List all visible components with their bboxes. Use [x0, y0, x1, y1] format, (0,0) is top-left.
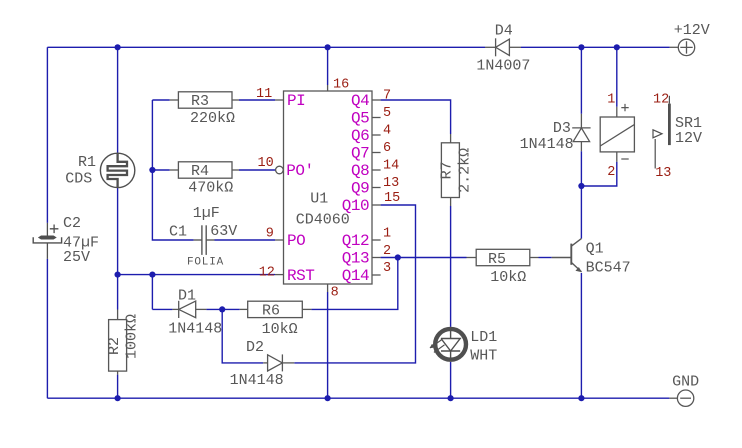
svg-text:Q1: Q1: [586, 240, 604, 257]
pin stub Q10: [372, 204, 381, 206]
pin stub Q4: [372, 99, 381, 101]
pin bubble PO' 10: [276, 166, 284, 174]
svg-text:LD1: LD1: [470, 329, 497, 346]
junction RST row R1 column: [115, 272, 121, 278]
svg-text:11: 11: [256, 87, 272, 102]
wire bottom rail: [47, 397, 669, 399]
junction Q13 row R6: [395, 254, 401, 260]
resistor R6: [240, 301, 312, 317]
junction R4 node: [149, 167, 155, 173]
svg-text:Q10: Q10: [342, 197, 369, 215]
junction bottom rail LED: [448, 395, 454, 401]
svg-text:13: 13: [383, 176, 399, 191]
svg-text:Q4: Q4: [351, 92, 369, 110]
svg-text:2.2kΩ: 2.2kΩ: [456, 148, 473, 193]
wire R7 bottom through LED top: [450, 206, 452, 327]
wire D3 bottom to junction: [580, 151, 582, 186]
svg-text:C2: C2: [63, 215, 81, 232]
wire RST row: [118, 274, 275, 276]
junction bottom rail Q1 emitter: [578, 395, 584, 401]
wire left rail lower (C2 to bottom): [46, 259, 48, 398]
svg-text:10kΩ: 10kΩ: [262, 321, 298, 338]
wire R3 right to PI: [239, 99, 275, 101]
wire Q1 emitter to rail: [580, 273, 582, 398]
pin stub Q6: [372, 134, 381, 136]
wire RST junction to R2 top: [117, 275, 119, 310]
wire D2 drop from junction: [222, 309, 263, 363]
svg-text:470kΩ: 470kΩ: [188, 180, 233, 197]
svg-text:D4: D4: [495, 22, 513, 39]
svg-text:5: 5: [383, 106, 391, 121]
svg-text:Q6: Q6: [351, 127, 369, 145]
wire top rail right of D4: [521, 46, 670, 48]
svg-text:Q5: Q5: [351, 110, 369, 128]
wire R5 right to Q1 base: [539, 257, 552, 259]
wire R4 left: [152, 169, 169, 171]
wire R4 right to PO' bubble: [239, 169, 276, 171]
svg-text:R2: R2: [106, 337, 123, 355]
svg-text:Q8: Q8: [351, 162, 369, 180]
svg-text:4: 4: [383, 124, 391, 139]
wire relay pin1: [616, 47, 618, 107]
terminal +12V: [670, 39, 695, 55]
svg-text:6: 6: [383, 141, 391, 156]
transistor Q1: [552, 239, 582, 272]
svg-text:Q13: Q13: [342, 250, 369, 268]
svg-text:9: 9: [266, 227, 274, 242]
pin stub RST 12: [275, 274, 284, 276]
svg-text:1: 1: [383, 227, 391, 242]
pin stub PO 9: [275, 239, 284, 241]
resistor R4: [170, 162, 239, 178]
diode D3: [572, 114, 590, 151]
svg-text:D1: D1: [178, 288, 196, 305]
svg-text:PO: PO: [287, 232, 305, 250]
wire R6 right up to Q13 row: [311, 258, 397, 310]
svg-text:RST: RST: [287, 267, 314, 285]
wire junction to R6 left: [222, 308, 240, 310]
wire D2 right up to Q10 row: [294, 205, 415, 363]
junction top rail relay: [614, 44, 620, 50]
terminal GND: [669, 390, 693, 406]
LED LD1: [430, 328, 466, 361]
svg-text:2: 2: [383, 244, 391, 259]
svg-text:14: 14: [383, 159, 399, 174]
svg-text:12: 12: [259, 265, 275, 280]
svg-text:Q9: Q9: [351, 180, 369, 198]
op IC U1 box: [284, 91, 373, 284]
pin stub 8: [327, 284, 329, 292]
relay SR1 switch contact: [653, 96, 669, 169]
pin stub Q9: [372, 187, 381, 189]
svg-text:WHT: WHT: [470, 347, 497, 364]
wire D3 top: [580, 47, 582, 114]
svg-text:GND: GND: [672, 373, 699, 390]
wire C1 right to PO pin: [215, 239, 276, 241]
resistor R7: [441, 134, 459, 206]
svg-text:25V: 25V: [63, 249, 90, 266]
wire Q13 pin2 row to R5: [381, 257, 467, 259]
junction top rail R1: [115, 44, 121, 50]
svg-text:Q12: Q12: [342, 232, 369, 250]
pin stub Q13: [372, 257, 381, 259]
svg-text:15: 15: [384, 191, 400, 206]
svg-text:D2: D2: [246, 339, 264, 356]
svg-text:13: 13: [655, 166, 671, 181]
pin stub PI 11: [275, 99, 284, 101]
resistor R2: [109, 310, 127, 375]
wire RST junction down to D1: [151, 275, 153, 310]
svg-text:FOLIA: FOLIA: [187, 257, 224, 269]
svg-text:100kΩ: 100kΩ: [124, 314, 141, 359]
wire D1 left: [152, 308, 172, 310]
svg-text:220kΩ: 220kΩ: [190, 110, 235, 127]
svg-text:PO′: PO′: [286, 162, 313, 180]
capacitor C1: [194, 225, 215, 255]
wire relay pin2 to D3 junction: [581, 162, 616, 186]
svg-text:1N4007: 1N4007: [476, 57, 530, 74]
svg-text:Q14: Q14: [342, 267, 369, 285]
svg-text:1µF: 1µF: [193, 205, 220, 222]
resistor R3: [170, 92, 239, 108]
diode D2: [263, 354, 294, 371]
resistor R1 CDS photocell: [100, 153, 134, 187]
diode D1: [172, 301, 206, 318]
wire Q1 collector: [580, 186, 582, 239]
junction RST row D1 column: [149, 272, 155, 278]
junction bottom rail pin8: [325, 395, 331, 401]
svg-text:D3: D3: [553, 120, 571, 137]
wire top rail left of D4: [47, 46, 485, 48]
svg-text:R6: R6: [262, 303, 280, 320]
svg-text:R5: R5: [488, 251, 506, 268]
svg-text:1N4148: 1N4148: [168, 320, 222, 337]
svg-text:10kΩ: 10kΩ: [490, 269, 526, 286]
svg-text:PI: PI: [287, 92, 305, 110]
svg-text:R4: R4: [191, 163, 209, 180]
svg-text:R7: R7: [438, 161, 455, 179]
junction top rail D3: [578, 44, 584, 50]
diode D4: [485, 38, 521, 56]
wire R3 left: [152, 99, 169, 101]
svg-text:1N4148: 1N4148: [520, 136, 574, 153]
svg-text:+12V: +12V: [674, 22, 710, 39]
svg-text:10: 10: [258, 156, 274, 171]
svg-text:12V: 12V: [675, 130, 702, 147]
wire R1 top: [117, 47, 119, 153]
pin stub Q7: [372, 152, 381, 154]
junction bottom rail R2: [115, 395, 121, 401]
svg-text:2: 2: [607, 165, 615, 180]
svg-text:Q7: Q7: [351, 145, 369, 163]
svg-text:63V: 63V: [210, 223, 237, 240]
junction D1 R6 node: [219, 306, 225, 312]
svg-text:1N4148: 1N4148: [230, 372, 284, 389]
wire pin16 drop: [327, 47, 329, 85]
svg-text:U1: U1: [310, 190, 328, 207]
svg-text:12: 12: [653, 93, 669, 108]
wire R1 bottom to RST row: [117, 188, 119, 275]
pin stub Q14: [372, 274, 381, 276]
svg-text:7: 7: [383, 89, 391, 104]
wire D1 right to junction: [206, 308, 222, 310]
svg-text:1: 1: [607, 93, 615, 108]
svg-text:R3: R3: [191, 93, 209, 110]
svg-text:BC547: BC547: [586, 260, 631, 277]
svg-text:CDS: CDS: [65, 170, 92, 187]
wire pin8 to bottom rail: [327, 292, 329, 398]
svg-text:8: 8: [331, 286, 339, 301]
svg-text:C1: C1: [169, 224, 187, 241]
pin stub Q12: [372, 239, 381, 241]
junction top rail pin16: [325, 44, 331, 50]
pin stub Q5: [372, 117, 381, 119]
svg-text:R1: R1: [78, 154, 96, 171]
wire R2 bottom to rail: [117, 375, 119, 399]
junction D3 relay collector: [578, 183, 584, 189]
svg-text:16: 16: [333, 78, 349, 93]
wire left rail upper (to C2): [46, 47, 48, 223]
svg-text:3: 3: [383, 261, 391, 276]
capacitor C2: [33, 223, 61, 259]
relay SR1 coil: [600, 104, 634, 162]
wire Q4 pin7 row to R7: [381, 100, 451, 134]
wire RC column R3 to C1 row: [152, 100, 193, 240]
resistor R5: [467, 249, 539, 265]
pin stub 16: [327, 85, 329, 91]
wire LED bottom to rail: [450, 362, 452, 398]
pin stub Q8: [372, 169, 381, 171]
